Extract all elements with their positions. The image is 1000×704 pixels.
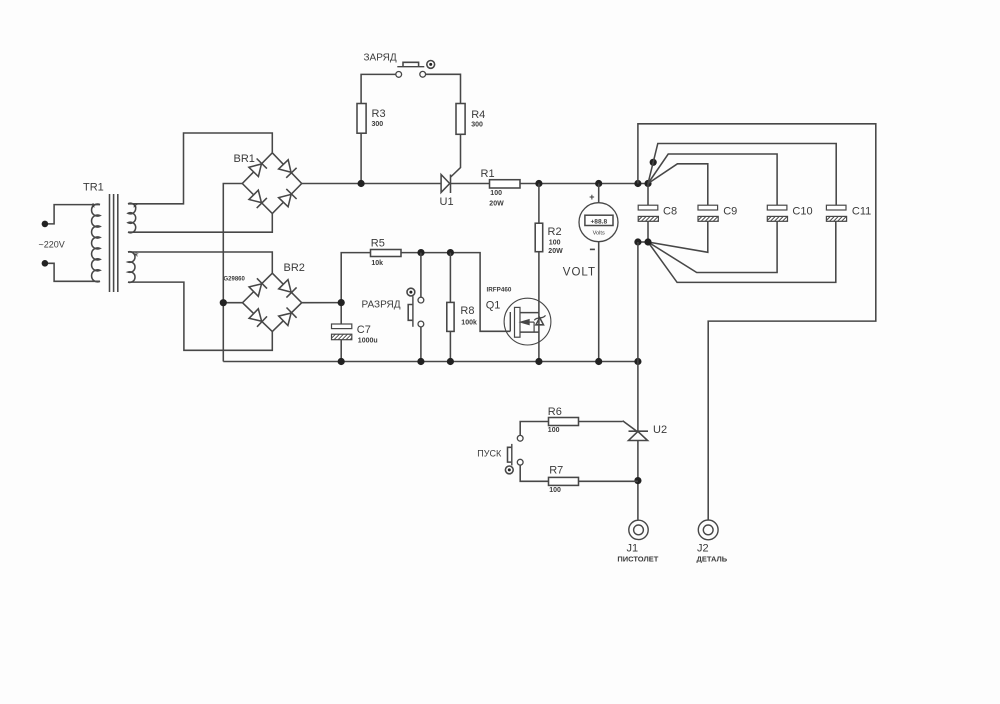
svg-text:IRFP460: IRFP460 xyxy=(487,287,512,294)
svg-text:R5: R5 xyxy=(371,237,385,249)
BR2 diode lower-right xyxy=(279,313,291,325)
wire C7 bottom xyxy=(340,340,342,362)
BR1 diode lower-left xyxy=(249,190,261,202)
svg-text:C10: C10 xyxy=(792,206,812,218)
wire primary top xyxy=(45,205,100,224)
connector J1 xyxy=(629,520,648,539)
wire BR1 left vertex to ground rail xyxy=(223,184,242,362)
resistor R6 xyxy=(549,418,579,426)
wire C9 bottom branch xyxy=(648,221,708,252)
wire secondary2 bottom to BR2 bottom xyxy=(128,282,272,350)
svg-text:R4: R4 xyxy=(471,109,485,121)
wire R8 top xyxy=(449,253,451,303)
Q1 channel bar xyxy=(515,307,521,337)
BR1 diode lower-right xyxy=(279,194,292,206)
svg-text:РАЗРЯД: РАЗРЯД xyxy=(362,299,401,310)
bridge rectifier BR1 diamond xyxy=(242,153,301,214)
svg-text:C11: C11 xyxy=(852,206,871,218)
svg-text:1000u: 1000u xyxy=(358,338,378,345)
junction cap bottom right xyxy=(644,238,651,245)
svg-text:ПУСК: ПУСК xyxy=(477,448,502,458)
wire secondary2 top to BR2 top xyxy=(128,252,272,273)
svg-text:G29860: G29860 xyxy=(224,277,246,283)
wire C8 top lead xyxy=(647,184,649,206)
voltmeter display xyxy=(585,215,613,225)
svg-text:R8: R8 xyxy=(460,305,474,317)
svg-text:TR1: TR1 xyxy=(83,182,104,194)
thyristor U2 triangle xyxy=(629,431,648,440)
wire cap node to ground bus xyxy=(637,242,639,362)
wire R3 top xyxy=(361,74,396,103)
junction bus outer loop xyxy=(634,180,641,187)
diode U1 triangle xyxy=(441,175,450,193)
pushbutton ZARYAD head xyxy=(427,61,435,69)
wire R2 top xyxy=(538,184,540,224)
Q1 source tap xyxy=(520,331,539,333)
diode U1 cathode bar xyxy=(450,175,452,194)
capacitor C11 plate bottom xyxy=(826,216,846,221)
Q1 source lead xyxy=(538,313,540,362)
svg-text:ДЕТАЛЬ: ДЕТАЛЬ xyxy=(697,555,728,564)
Q1 substrate arrow xyxy=(530,321,535,323)
wire ground bus to U2 xyxy=(637,362,639,432)
transformer TR1 core xyxy=(109,194,111,292)
wire RAZRYAD bottom xyxy=(420,327,422,362)
thyristor U2 gate xyxy=(623,421,638,432)
wire main bus xyxy=(302,183,441,185)
svg-text:R7: R7 xyxy=(549,465,563,477)
wire voltmeter top xyxy=(598,184,600,203)
wire R4 top xyxy=(426,74,461,103)
svg-text:300: 300 xyxy=(372,121,384,128)
wire R3 bottom xyxy=(360,133,362,183)
transformer TR1 secondary winding 2 xyxy=(128,252,135,283)
pushbutton ZARYAD plunger xyxy=(397,66,424,68)
capacitor C8 plate top xyxy=(638,205,658,210)
junction BR2 left xyxy=(220,299,227,306)
wire C10 top branch xyxy=(648,154,777,205)
transistor Q1 body circle xyxy=(504,298,551,345)
svg-text:10k: 10k xyxy=(371,260,383,267)
svg-text:VOLT: VOLT xyxy=(563,266,596,278)
junction R8 ground xyxy=(447,358,454,365)
pushbutton RAZRYAD contact bottom xyxy=(418,321,424,327)
junction switch top xyxy=(417,249,424,256)
wire R7 to U2 cathode line xyxy=(579,480,638,482)
svg-text:R1: R1 xyxy=(481,168,495,180)
pushbutton RAZRYAD head xyxy=(407,288,415,296)
wire main bus R1 to cap bank xyxy=(520,183,648,185)
BR1 diode upper-left xyxy=(249,164,262,177)
capacitor C8 plate bottom xyxy=(638,216,658,221)
svg-text:20W: 20W xyxy=(548,248,563,255)
junction R7 node xyxy=(634,477,641,484)
svg-text:BR1: BR1 xyxy=(234,153,255,165)
wire secondary1 top to BR1 top xyxy=(128,133,272,204)
bridge rectifier BR2 diamond xyxy=(243,273,302,331)
svg-text:R6: R6 xyxy=(548,406,562,418)
svg-text:100: 100 xyxy=(490,190,502,197)
wire primary bottom xyxy=(45,263,100,281)
voltmeter VOLT body xyxy=(579,203,618,242)
wire R8 bottom xyxy=(449,331,451,361)
wire ground bus xyxy=(223,361,638,363)
svg-text:Q1: Q1 xyxy=(486,300,501,312)
resistor R3 xyxy=(357,104,366,134)
pushbutton ZARYAD contact left xyxy=(396,72,402,78)
svg-text:*: * xyxy=(91,200,96,215)
junction Q1 ground xyxy=(535,358,542,365)
svg-text:C8: C8 xyxy=(663,206,677,218)
wire C8 bottom lead xyxy=(647,221,649,242)
svg-text:100: 100 xyxy=(549,240,561,247)
wire C11 bottom branch xyxy=(648,221,836,282)
transformer TR1 secondary winding 1 xyxy=(128,203,136,233)
junction C7 ground xyxy=(338,358,345,365)
pushbutton RAZRYAD plunger xyxy=(412,296,414,327)
svg-text:+: + xyxy=(589,192,594,202)
svg-text:U2: U2 xyxy=(653,424,667,436)
resistor R5 xyxy=(371,250,402,257)
svg-text:Volts: Volts xyxy=(593,230,605,236)
wire PUSK top to R6 xyxy=(520,422,548,436)
resistor R7 xyxy=(549,477,579,485)
resistor R8 xyxy=(447,302,454,331)
wire RAZRYAD top xyxy=(420,253,422,298)
svg-text:~220V: ~220V xyxy=(39,240,65,250)
pushbutton PUSK contact top xyxy=(517,435,523,441)
wire BR2 right vertex xyxy=(302,302,342,304)
resistor R1 xyxy=(490,180,521,188)
junction bus cap node xyxy=(644,180,651,187)
wire cap bottom node xyxy=(638,241,648,243)
BR1 diode upper-right xyxy=(279,160,291,173)
wire outer loop to J2 xyxy=(638,124,876,520)
junction BR2 output xyxy=(338,299,345,306)
wire R5 right xyxy=(401,253,510,332)
svg-text:J2: J2 xyxy=(697,542,709,554)
capacitor C10 plate top xyxy=(767,205,787,210)
junction cap bottom left xyxy=(634,238,641,245)
svg-text:BR2: BR2 xyxy=(284,262,305,274)
pushbutton PUSK contact bottom xyxy=(517,459,523,465)
svg-text:100k: 100k xyxy=(461,320,477,327)
wire main bus right of U1 xyxy=(451,183,490,185)
wire PUSK bottom to R7 xyxy=(520,465,548,481)
svg-text:*: * xyxy=(133,200,138,215)
svg-text:ПИСТОЛЕТ: ПИСТОЛЕТ xyxy=(617,555,658,564)
wire C11 top branch xyxy=(648,144,836,206)
wire BR2 left vertex xyxy=(223,302,242,304)
svg-text:R2: R2 xyxy=(548,226,562,238)
wire R4 bottom xyxy=(451,134,461,177)
Q1 drain tap xyxy=(520,312,539,314)
svg-text:R3: R3 xyxy=(372,108,386,120)
wire voltmeter bottom xyxy=(598,242,600,362)
BR2 diode lower-left xyxy=(249,309,262,321)
svg-text:C9: C9 xyxy=(723,206,737,218)
svg-text:100: 100 xyxy=(549,487,561,494)
svg-text:C7: C7 xyxy=(357,324,371,336)
wire secondary1 bottom to BR1 bottom xyxy=(128,214,272,233)
pushbutton PUSK plunger xyxy=(511,444,513,466)
junction R1 R2 node xyxy=(535,180,542,187)
svg-text:+88.8: +88.8 xyxy=(590,218,607,225)
resistor R2 xyxy=(535,223,543,252)
terminal dot top xyxy=(42,221,49,228)
svg-text:300: 300 xyxy=(471,121,483,128)
Q1 body diode xyxy=(536,318,544,325)
capacitor C9 plate top xyxy=(698,205,718,210)
pushbutton PUSK head xyxy=(505,466,513,474)
transformer TR1 primary winding xyxy=(92,204,100,282)
wire R6 to U2 gate xyxy=(579,421,623,423)
wire R5 left xyxy=(341,253,370,324)
junction voltmeter ground xyxy=(595,358,602,365)
junction R3 bus xyxy=(358,180,365,187)
svg-text:20W: 20W xyxy=(489,200,504,207)
connector J2 xyxy=(698,520,718,540)
capacitor C10 plate bottom xyxy=(767,216,787,221)
junction R8 top xyxy=(447,249,454,256)
wire U2 to J1 xyxy=(637,441,639,520)
BR2 diode upper-right xyxy=(279,280,291,293)
wire C9 top branch xyxy=(648,164,708,205)
Q1 gate lead xyxy=(509,312,511,331)
terminal dot bottom xyxy=(42,260,49,267)
BR2 diode upper-left xyxy=(249,284,261,296)
pushbutton RAZRYAD contact top xyxy=(418,297,424,303)
junction ground bus end xyxy=(634,358,641,365)
capacitor C9 plate bottom xyxy=(698,216,718,221)
svg-text:U1: U1 xyxy=(440,196,454,208)
svg-text:J1: J1 xyxy=(627,542,639,554)
label voltmeter minus xyxy=(590,248,595,250)
thyristor U2 cathode bar xyxy=(629,430,649,432)
resistor R4 xyxy=(456,104,465,135)
capacitor C7 plate bottom xyxy=(332,334,352,340)
wire C10 bottom branch xyxy=(648,221,777,272)
capacitor C11 plate top xyxy=(826,205,846,210)
wire R2 bottom / Q1 drain xyxy=(538,252,540,313)
svg-text:100: 100 xyxy=(548,427,560,434)
junction voltmeter bus xyxy=(595,180,602,187)
svg-text:ЗАРЯД: ЗАРЯД xyxy=(364,53,397,64)
junction stray on C11 branch xyxy=(650,159,657,166)
capacitor C7 plate top xyxy=(332,324,352,329)
junction switch ground xyxy=(417,358,424,365)
pushbutton ZARYAD contact right xyxy=(420,71,426,77)
